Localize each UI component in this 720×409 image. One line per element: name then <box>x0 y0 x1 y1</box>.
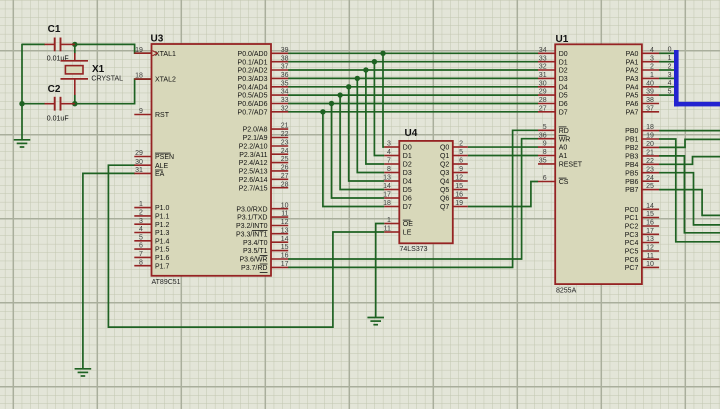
svg-text:28: 28 <box>281 181 289 188</box>
svg-text:74LS373: 74LS373 <box>400 246 428 253</box>
bus: address bus (blue) horizontal to right edge <box>674 102 720 107</box>
node junction C2/X1 <box>72 101 77 106</box>
svg-text:2: 2 <box>650 64 654 71</box>
U1 pin 28 D6 <box>538 97 568 108</box>
svg-text:11: 11 <box>647 253 654 260</box>
svg-text:15: 15 <box>281 244 289 251</box>
svg-text:20: 20 <box>646 141 654 148</box>
U1 pin 34 D0 <box>538 47 568 58</box>
svg-text:Q0: Q0 <box>440 145 449 152</box>
svg-text:13: 13 <box>383 175 391 182</box>
U3 pin 14 P3.4/T0 <box>243 236 289 247</box>
U1 pin 13 PC4 <box>625 236 659 247</box>
svg-text:P1.5: P1.5 <box>155 247 170 254</box>
svg-text:EA: EA <box>155 171 165 178</box>
svg-text:XTAL2: XTAL2 <box>155 77 176 84</box>
svg-text:PC0: PC0 <box>625 207 639 214</box>
svg-text:6: 6 <box>459 158 463 165</box>
svg-text:P1.7: P1.7 <box>155 263 170 270</box>
U3 pin 4 P1.3 <box>134 226 169 237</box>
svg-text:P3.4/T0: P3.4/T0 <box>243 240 268 247</box>
svg-text:23: 23 <box>646 166 654 173</box>
svg-text:D2: D2 <box>559 68 568 75</box>
U4 pin 18 D7 <box>383 200 412 211</box>
wire U3 EA to ground <box>83 173 135 368</box>
U3 pin 17 P3.7/RD <box>241 261 289 272</box>
wire C2 left lead <box>22 103 45 105</box>
U4 pin 2 Q0 <box>440 141 468 152</box>
svg-text:25: 25 <box>646 183 654 190</box>
svg-text:6: 6 <box>543 175 547 182</box>
svg-text:12: 12 <box>281 219 289 226</box>
svg-text:D2: D2 <box>403 162 412 169</box>
svg-text:OE: OE <box>403 221 413 228</box>
U3 pin 36 P0.3/AD3 <box>238 72 289 83</box>
svg-text:PA5: PA5 <box>626 93 639 100</box>
svg-text:36: 36 <box>281 72 289 79</box>
U4 pin 9 Q3 <box>440 166 468 177</box>
U3 pin 3 P1.2 <box>134 218 169 229</box>
U1 pin 12 PC5 <box>625 245 659 256</box>
svg-text:2: 2 <box>668 63 672 70</box>
svg-text:P1.4: P1.4 <box>155 238 170 245</box>
ground <box>75 369 92 376</box>
U1 pin 14 PC0 <box>625 203 659 214</box>
svg-text:PB4: PB4 <box>625 162 638 169</box>
U3 pin 25 P2.4/A12 <box>239 156 289 167</box>
svg-text:LE: LE <box>403 230 412 237</box>
svg-text:36: 36 <box>539 132 547 139</box>
U1 pin 2 PA2 <box>626 64 659 75</box>
svg-text:19: 19 <box>455 200 463 207</box>
wire U1 PB3 crossover down <box>659 156 720 233</box>
ground <box>367 318 384 325</box>
ground <box>14 140 31 147</box>
svg-text:P1.0: P1.0 <box>155 205 170 212</box>
svg-text:D7: D7 <box>559 109 568 116</box>
svg-text:P1.6: P1.6 <box>155 255 170 262</box>
svg-text:3: 3 <box>387 141 391 148</box>
svg-text:XTAL1: XTAL1 <box>155 51 176 58</box>
svg-text:21: 21 <box>281 123 289 130</box>
U3 pin 6 P1.5 <box>134 243 169 254</box>
svg-text:P2.2/A10: P2.2/A10 <box>239 144 268 151</box>
svg-text:31: 31 <box>135 167 143 174</box>
svg-text:5: 5 <box>139 234 143 241</box>
svg-text:PB5: PB5 <box>625 170 638 177</box>
U3 XTAL1 clock marker <box>153 51 158 56</box>
svg-text:4: 4 <box>668 80 672 87</box>
svg-text:P1.1: P1.1 <box>155 214 170 221</box>
U3 pin 12 P3.2/INT0 <box>236 219 289 230</box>
svg-text:34: 34 <box>281 89 289 96</box>
U3 pin 10 P3.0/RXD <box>236 202 288 213</box>
svg-text:U3: U3 <box>151 34 164 45</box>
U1 pin 24 PB6 <box>625 175 659 186</box>
U4 pin 14 D5 <box>383 183 412 194</box>
svg-text:22: 22 <box>281 131 289 138</box>
svg-text:PC7: PC7 <box>625 265 639 272</box>
svg-text:0: 0 <box>668 47 672 54</box>
svg-text:PB0: PB0 <box>625 128 638 135</box>
U1 pin 5 RD <box>538 124 569 135</box>
U3 pin 26 P2.5/A13 <box>239 165 289 176</box>
svg-text:7: 7 <box>139 251 143 258</box>
U1 pin 15 PC1 <box>625 211 659 222</box>
U3 pin 39 P0.0/AD0 <box>238 47 289 58</box>
U3 pin 21 P2.0/A8 <box>243 123 289 134</box>
wire crystal X1 bottom lead <box>74 95 76 104</box>
U1 pin 20 PB2 <box>625 141 659 152</box>
U1 pin 32 D2 <box>538 64 568 75</box>
wire C1 right lead <box>73 43 76 45</box>
svg-text:ALE: ALE <box>155 163 169 170</box>
svg-text:P0.0/AD0: P0.0/AD0 <box>238 51 268 58</box>
svg-text:6: 6 <box>139 243 143 250</box>
svg-text:WR: WR <box>559 136 571 143</box>
U3 pin 19 XTAL1 <box>134 47 176 58</box>
svg-text:P0.2/AD2: P0.2/AD2 <box>238 68 268 75</box>
svg-text:19: 19 <box>135 47 143 54</box>
svg-text:5: 5 <box>459 149 463 156</box>
svg-text:4: 4 <box>387 149 391 156</box>
svg-text:A1: A1 <box>559 153 568 160</box>
U3 pin 33 P0.6/AD6 <box>238 97 289 108</box>
node junction C1/X1 <box>72 42 77 47</box>
wire U1 PB1 crossover down <box>659 139 720 242</box>
U4 pin 3 D0 <box>384 141 412 152</box>
svg-text:P0.5/AD5: P0.5/AD5 <box>238 93 268 100</box>
svg-text:29: 29 <box>539 89 547 96</box>
U4 pin 11 LE <box>384 226 412 237</box>
U3 pin 29 PSEN <box>134 150 174 161</box>
svg-text:P3.3/INT1: P3.3/INT1 <box>236 231 268 238</box>
svg-text:32: 32 <box>281 105 289 112</box>
svg-text:D5: D5 <box>559 93 568 100</box>
U1 pin 3 PA1 <box>626 55 659 66</box>
node junctions on AD bus <box>320 51 386 115</box>
svg-text:2: 2 <box>139 210 143 217</box>
svg-text:D3: D3 <box>559 76 568 83</box>
svg-text:30: 30 <box>539 80 547 87</box>
svg-text:D4: D4 <box>559 84 568 91</box>
svg-text:28: 28 <box>539 97 547 104</box>
U1 pin 8 A1 <box>538 149 567 160</box>
svg-text:16: 16 <box>281 253 289 260</box>
svg-text:16: 16 <box>646 220 654 227</box>
svg-text:32: 32 <box>539 64 547 71</box>
U1 pin 37 PA7 <box>626 105 659 116</box>
svg-text:1: 1 <box>668 55 672 62</box>
U3 pin 16 P3.6/WR <box>239 253 288 264</box>
svg-text:PB2: PB2 <box>625 145 638 152</box>
svg-text:P3.2/INT0: P3.2/INT0 <box>236 223 268 230</box>
svg-text:Q4: Q4 <box>440 179 449 186</box>
U3 pin 32 P0.7/AD7 <box>238 105 289 116</box>
svg-text:34: 34 <box>539 47 547 54</box>
svg-text:Q3: Q3 <box>440 170 449 177</box>
U1 pin 1 PA3 <box>626 72 659 83</box>
U1 pin 4 PA0 <box>626 47 659 58</box>
svg-text:PC1: PC1 <box>625 215 639 222</box>
U3 pin 28 P2.7/A15 <box>239 181 289 192</box>
wire U4 Q7 to U1 CS <box>468 182 538 207</box>
U1 pin 9 A0 <box>538 141 567 152</box>
svg-text:37: 37 <box>646 105 654 112</box>
svg-text:38: 38 <box>281 55 289 62</box>
svg-text:17: 17 <box>383 192 391 199</box>
svg-text:PC4: PC4 <box>625 240 639 247</box>
svg-text:P0.6/AD6: P0.6/AD6 <box>238 101 268 108</box>
U4 pin 1 OE <box>384 217 413 228</box>
U3 pin 15 P3.5/T1 <box>243 244 289 255</box>
svg-text:24: 24 <box>646 175 654 182</box>
U4 pin 12 Q4 <box>440 175 468 186</box>
svg-text:D3: D3 <box>403 170 412 177</box>
svg-text:A0: A0 <box>559 145 568 152</box>
svg-text:10: 10 <box>281 202 289 209</box>
svg-text:17: 17 <box>281 261 289 268</box>
svg-text:P2.4/A12: P2.4/A12 <box>239 160 268 167</box>
svg-text:1: 1 <box>650 72 654 79</box>
U3 pin 37 P0.2/AD2 <box>238 64 289 75</box>
svg-text:27: 27 <box>281 173 289 180</box>
wire taps from AD bus down to U4 D0..D7 <box>323 53 384 206</box>
svg-text:PA0: PA0 <box>626 51 639 58</box>
U3 pin 11 P3.1/TXD <box>237 211 288 222</box>
svg-text:22: 22 <box>646 158 654 165</box>
U1 pin 25 PB7 <box>625 183 659 194</box>
net labels 0..5 on PA bus wires <box>668 47 672 96</box>
svg-text:P2.7/A15: P2.7/A15 <box>239 185 268 192</box>
svg-text:21: 21 <box>646 150 654 157</box>
svg-text:5: 5 <box>543 124 547 131</box>
svg-text:25: 25 <box>281 156 289 163</box>
svg-text:D1: D1 <box>559 59 568 66</box>
svg-text:40: 40 <box>646 80 654 87</box>
svg-text:Q2: Q2 <box>440 162 449 169</box>
capacitor C2 <box>45 97 75 111</box>
svg-text:1: 1 <box>139 201 143 208</box>
svg-text:P0.3/AD3: P0.3/AD3 <box>238 76 268 83</box>
svg-text:17: 17 <box>646 228 654 235</box>
U1 pin 39 PA5 <box>626 89 659 100</box>
svg-text:5: 5 <box>668 89 672 96</box>
svg-text:PC6: PC6 <box>625 257 639 264</box>
U1 pin 23 PB5 <box>625 166 659 177</box>
svg-text:13: 13 <box>646 236 654 243</box>
U3 pin 8 P1.7 <box>134 259 169 270</box>
svg-text:4: 4 <box>650 47 654 54</box>
svg-text:P0.1/AD1: P0.1/AD1 <box>238 59 268 66</box>
U1 pin 31 D3 <box>538 72 568 83</box>
svg-text:30: 30 <box>135 159 143 166</box>
U3 pin 2 P1.1 <box>134 210 169 221</box>
svg-text:15: 15 <box>455 183 463 190</box>
U4 pin 5 Q1 <box>440 149 468 160</box>
wire crystal X1 top lead <box>74 44 76 53</box>
U1 pin 22 PB4 <box>625 158 659 169</box>
svg-text:33: 33 <box>539 55 547 62</box>
svg-text:Q1: Q1 <box>440 153 449 160</box>
svg-text:3: 3 <box>668 72 672 79</box>
U3 pin 27 P2.6/A14 <box>239 173 289 184</box>
svg-text:19: 19 <box>646 133 654 140</box>
svg-text:16: 16 <box>455 192 463 199</box>
U1 pin 35 RESET <box>538 158 583 169</box>
svg-text:PB6: PB6 <box>625 179 638 186</box>
svg-text:8: 8 <box>387 166 391 173</box>
U3 pin 31 EA <box>134 167 164 178</box>
U3 pin 34 P0.5/AD5 <box>238 89 289 100</box>
U1 pin 19 PB1 <box>625 133 659 144</box>
svg-text:P1.3: P1.3 <box>155 230 170 237</box>
U4 pin 7 D2 <box>384 158 412 169</box>
svg-text:P2.3/A11: P2.3/A11 <box>239 152 267 159</box>
svg-text:RST: RST <box>155 112 170 119</box>
svg-text:27: 27 <box>539 105 547 112</box>
U1 pin 6 CS <box>538 175 569 186</box>
wire P0/AD0..AD7 data bus: U3 P0.x to U1 Dx <box>288 53 538 112</box>
svg-text:PA7: PA7 <box>626 109 639 116</box>
svg-text:11: 11 <box>384 226 391 233</box>
svg-text:12: 12 <box>455 175 463 182</box>
svg-text:D1: D1 <box>403 153 412 160</box>
svg-text:26: 26 <box>281 165 289 172</box>
svg-text:PSEN: PSEN <box>155 154 174 161</box>
crystal X1 <box>61 53 89 95</box>
svg-text:9: 9 <box>543 141 547 148</box>
wires U1 PA0..PA5 to address bus <box>659 53 675 95</box>
svg-text:PB7: PB7 <box>625 187 638 194</box>
svg-text:1: 1 <box>387 217 391 224</box>
U1 pin 29 D5 <box>538 89 568 100</box>
svg-text:P0.7/AD7: P0.7/AD7 <box>238 109 268 116</box>
svg-text:Q7: Q7 <box>440 204 449 211</box>
svg-text:P2.5/A13: P2.5/A13 <box>239 169 268 176</box>
svg-text:0.01uF: 0.01uF <box>47 115 69 122</box>
svg-text:18: 18 <box>383 200 391 207</box>
svg-text:P2.0/A8: P2.0/A8 <box>243 127 268 134</box>
svg-text:PB1: PB1 <box>625 137 638 144</box>
svg-text:9: 9 <box>139 108 143 115</box>
U4 pin 6 Q2 <box>440 158 468 169</box>
U4 pin 13 D4 <box>383 175 412 186</box>
wire U3 P3.7/RD to U1 RD <box>288 130 538 267</box>
svg-text:12: 12 <box>646 245 654 252</box>
wire U4 OE to ground <box>376 224 385 318</box>
svg-text:Q6: Q6 <box>440 196 449 203</box>
svg-text:39: 39 <box>646 89 654 96</box>
U3 pin 7 P1.6 <box>134 251 169 262</box>
svg-text:39: 39 <box>281 47 289 54</box>
U3 pin 13 P3.3/INT1 <box>236 227 289 238</box>
svg-text:PA2: PA2 <box>626 68 639 75</box>
svg-text:C1: C1 <box>48 24 61 35</box>
svg-text:18: 18 <box>646 124 654 131</box>
svg-text:D0: D0 <box>559 51 568 58</box>
svg-text:29: 29 <box>135 150 143 157</box>
svg-text:PC2: PC2 <box>625 224 639 231</box>
svg-text:P3.5/T1: P3.5/T1 <box>243 248 268 255</box>
svg-text:3: 3 <box>139 218 143 225</box>
svg-text:23: 23 <box>281 140 289 147</box>
svg-text:P2.6/A14: P2.6/A14 <box>239 177 268 184</box>
svg-text:P3.0/RXD: P3.0/RXD <box>236 206 267 213</box>
U3 pin 1 P1.0 <box>134 201 169 212</box>
svg-text:D0: D0 <box>403 145 412 152</box>
svg-text:PA4: PA4 <box>626 84 639 91</box>
svg-text:35: 35 <box>539 158 547 165</box>
U3 pin 5 P1.4 <box>134 234 169 245</box>
svg-text:33: 33 <box>281 97 289 104</box>
svg-text:PB3: PB3 <box>625 154 638 161</box>
svg-text:8: 8 <box>139 259 143 266</box>
U1 pin 36 WR <box>538 132 570 143</box>
svg-text:10: 10 <box>646 261 654 268</box>
svg-text:P3.6/WR: P3.6/WR <box>239 257 267 264</box>
U1 pin 10 PC7 <box>625 261 659 272</box>
IC U1 8255A body <box>555 44 642 284</box>
svg-text:35: 35 <box>281 80 289 87</box>
svg-text:37: 37 <box>281 64 289 71</box>
svg-text:2: 2 <box>459 141 463 148</box>
svg-text:D6: D6 <box>403 196 412 203</box>
svg-text:D6: D6 <box>559 101 568 108</box>
wire U1 PB4 crossover up <box>659 157 720 165</box>
U1 pin 33 D1 <box>538 55 568 66</box>
wire U1 PB0 to right edge <box>659 130 720 132</box>
svg-text:PC3: PC3 <box>625 232 639 239</box>
svg-text:X1: X1 <box>92 64 105 75</box>
svg-text:9: 9 <box>459 166 463 173</box>
svg-text:PA3: PA3 <box>626 76 639 83</box>
U1 pin 27 D7 <box>538 105 568 116</box>
svg-text:11: 11 <box>281 211 288 218</box>
U3 pin 30 ALE <box>134 159 168 170</box>
U1 pin 21 PB3 <box>625 150 659 161</box>
wire C1 left lead to GND rail <box>22 44 45 140</box>
wire U3 ALE to U4 LE <box>108 165 384 327</box>
svg-text:14: 14 <box>383 183 391 190</box>
svg-text:4: 4 <box>139 226 143 233</box>
svg-text:PA6: PA6 <box>626 101 639 108</box>
U4 pin 16 Q6 <box>440 192 468 203</box>
wire C2 node to U3 XTAL2 pin 18 <box>75 79 152 104</box>
U1 pin 38 PA6 <box>626 97 659 108</box>
wire U1 PB5 crossover down <box>659 173 720 225</box>
U4 pin 19 Q7 <box>440 200 468 211</box>
U3 pin 38 P0.1/AD1 <box>238 55 289 66</box>
svg-text:P3.7/RD: P3.7/RD <box>241 265 267 272</box>
svg-text:18: 18 <box>135 73 143 80</box>
svg-text:C2: C2 <box>48 84 61 95</box>
svg-text:D4: D4 <box>403 179 412 186</box>
U1 pin 18 PB0 <box>625 124 659 135</box>
svg-text:Q5: Q5 <box>440 187 449 194</box>
svg-text:P1.2: P1.2 <box>155 222 170 229</box>
svg-text:PC5: PC5 <box>625 249 639 256</box>
wire U1 PB2 crossover up <box>659 139 720 147</box>
node junction C2/GND rail <box>19 101 24 106</box>
U3 pin 9 RST <box>134 108 169 119</box>
U3 pin 18 XTAL2 <box>134 73 176 84</box>
wire C1 node to U3 XTAL1 pin 19 <box>75 44 152 53</box>
svg-text:31: 31 <box>539 72 547 79</box>
IC U3 AT89C51 body <box>152 44 272 276</box>
svg-text:CRYSTAL: CRYSTAL <box>91 75 123 82</box>
wire C2 right lead <box>73 103 76 105</box>
